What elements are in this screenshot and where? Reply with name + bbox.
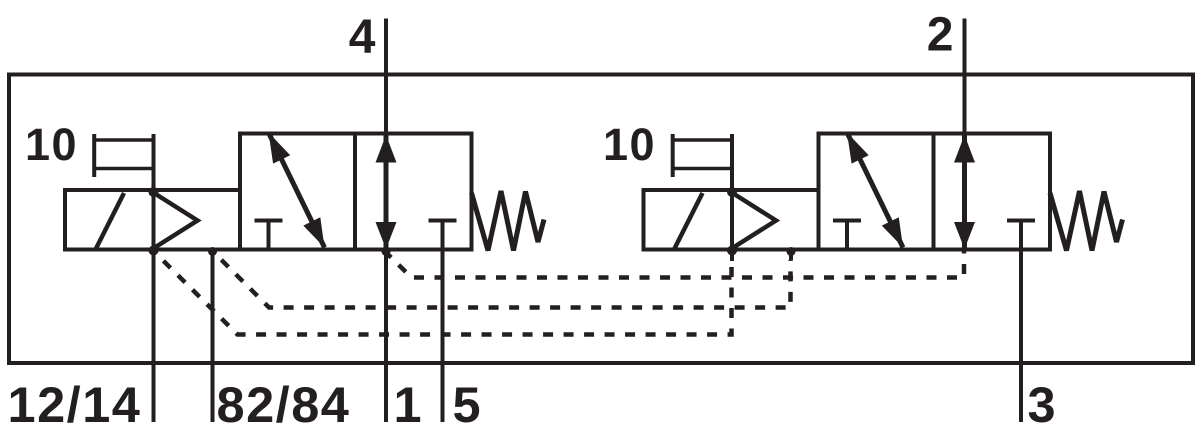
valve body V1 [240, 134, 472, 250]
wire pilot stub right valve 12 [730, 250, 734, 262]
node dot pilot bottom V1 [149, 246, 159, 256]
wire pilot stub right valve 82 [789, 250, 793, 261]
node dot 82/84 junction V1 [208, 247, 217, 256]
valve V2 (right 3/2 valve) [644, 133, 1123, 257]
enclosure border [9, 75, 1193, 364]
svg-text:3: 3 [1028, 376, 1056, 433]
return spring V2 [1050, 191, 1123, 251]
wire port 5 line [441, 250, 445, 423]
svg-text:10: 10 [603, 119, 656, 170]
node dot 82/84 junction V2 [787, 247, 796, 256]
wire port 12/14 line [152, 250, 156, 423]
blocked port T left chamber V1 [255, 219, 283, 223]
solenoid box V2 [644, 190, 819, 250]
blocked port T right chamber V2 [1007, 219, 1035, 223]
wire dashed pilot line port 1 to right valve port 2 [386, 251, 964, 278]
solenoid coil slash V1 [96, 193, 125, 250]
manual override bottom rail V1 [94, 167, 153, 171]
node dot pilot bottom V2 [727, 246, 737, 256]
blocked port T left chamber V2 [833, 219, 861, 223]
flow arrow diagonal V1 [269, 133, 325, 248]
manual override bar V1 [92, 134, 96, 177]
wire port 4 / 1 line [384, 19, 388, 423]
wire port 3 line [1019, 250, 1023, 423]
svg-text:82/84: 82/84 [217, 376, 351, 433]
manual override top rail V2 [673, 138, 732, 142]
manual override bar V2 [671, 134, 675, 177]
node dot pilot top V2 [727, 187, 737, 197]
valve body V1 middle separator [353, 134, 357, 250]
wire port 82/84 line [211, 250, 215, 423]
flow arrow vertical V2 [962, 134, 967, 250]
pilot triangle V2 [733, 193, 777, 248]
wire port 2 line [963, 19, 967, 135]
flow arrow vertical V1 [384, 134, 389, 250]
svg-text:12/14: 12/14 [8, 376, 142, 433]
pilot triangle V1 [154, 193, 198, 248]
svg-text:10: 10 [25, 119, 78, 170]
valve body V2 middle separator [932, 134, 936, 250]
svg-text:5: 5 [453, 376, 481, 433]
svg-text:1: 1 [394, 376, 422, 433]
manual override top rail V1 [94, 138, 153, 142]
return spring V1 [472, 191, 545, 251]
pilot vertical wire V2 [730, 134, 734, 250]
node dot pilot top V1 [149, 187, 159, 197]
solenoid coil slash V2 [674, 193, 703, 250]
blocked port T right chamber V1 [429, 219, 457, 223]
pilot vertical wire V1 [152, 134, 156, 250]
flow arrow diagonal V2 [847, 133, 903, 248]
svg-text:2: 2 [927, 9, 954, 62]
valve V1 (left 3/2 valve) [65, 133, 544, 257]
node junction at port 1 [382, 247, 391, 256]
solenoid box V1 [65, 190, 240, 250]
wire dashed pilot line 82/84 to right valve [213, 251, 791, 308]
wire dashed pilot line 12/14 to right valve [154, 251, 732, 335]
valve body V2 [819, 134, 1051, 250]
svg-text:4: 4 [349, 11, 376, 64]
manual override bottom rail V2 [673, 167, 732, 171]
